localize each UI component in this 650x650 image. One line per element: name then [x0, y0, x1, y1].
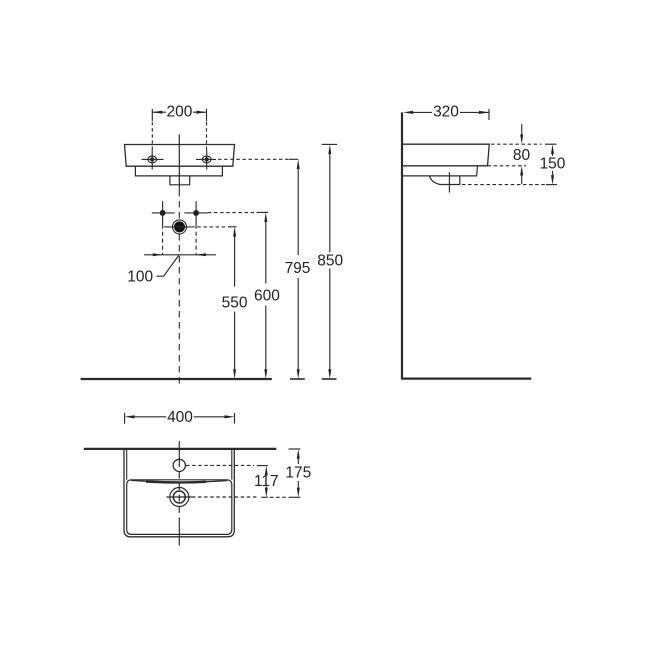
dashed ref top of basin	[491, 143, 542, 145]
wall line	[401, 112, 403, 379]
plan drain inner	[173, 491, 185, 503]
dashed reference from drain to 550	[191, 226, 228, 228]
right bolt hole	[196, 150, 216, 170]
dashed reference from dots to 600	[208, 212, 257, 214]
plan centerline	[178, 441, 180, 460]
svg-text:100: 100	[127, 269, 153, 286]
dimension line 795	[290, 159, 305, 379]
dimension 100 leader	[157, 255, 180, 276]
svg-text:175: 175	[285, 464, 311, 481]
plan faucet hole	[173, 459, 185, 471]
dimension 100 extension dashed lines	[162, 225, 164, 255]
floor line side view	[401, 378, 531, 380]
plan bowl back ledge shading	[146, 480, 206, 483]
svg-text:200: 200	[166, 104, 192, 121]
dimension 400	[125, 413, 235, 424]
plan outer basin rect	[124, 449, 234, 537]
left bolt hole	[142, 150, 164, 170]
svg-text:600: 600	[254, 288, 280, 305]
dimension 200	[152, 109, 206, 150]
front drain circle	[164, 220, 191, 234]
svg-text:320: 320	[433, 104, 459, 121]
countertop / wall edge line	[84, 448, 276, 450]
floor line under front view	[81, 378, 272, 380]
svg-text:400: 400	[167, 409, 193, 426]
svg-text:150: 150	[540, 155, 566, 172]
svg-text:550: 550	[222, 295, 248, 312]
svg-text:850: 850	[317, 252, 343, 269]
right wall anchor dot	[184, 201, 208, 225]
dimension line 550	[233, 227, 236, 379]
side basin step	[402, 166, 478, 176]
dimension 117	[265, 466, 268, 498]
front view vertical centerline	[178, 134, 180, 190]
dimension 150	[551, 144, 554, 185]
plan bowl outline	[127, 480, 232, 535]
dashed reference line from bolts to 795	[218, 158, 289, 160]
dimension 100 line with outside arrows	[144, 253, 216, 256]
dashed ref drain to 175	[192, 496, 259, 498]
side drain trap	[430, 176, 460, 184]
dimension 175	[289, 449, 301, 497]
dimension line 600	[264, 212, 267, 379]
plan drain horizontal line	[167, 496, 192, 498]
plan drain outer	[170, 488, 189, 507]
front basin drain tab	[170, 176, 190, 185]
front basin step	[135, 166, 222, 176]
dashed ref bottom of drain	[462, 184, 546, 186]
dashed ref bottom of rim	[488, 165, 527, 167]
left wall anchor dot	[152, 201, 175, 225]
svg-text:80: 80	[513, 147, 531, 164]
plan bowl back sagging edge	[131, 480, 228, 482]
side basin profile	[402, 144, 489, 166]
dimension 80	[520, 124, 523, 184]
side drain centerline	[448, 172, 450, 192]
plan inner rim line	[127, 449, 232, 480]
dashed ref faucet to 117	[186, 464, 254, 466]
dimension 320	[403, 109, 489, 120]
dimension line 850	[322, 144, 337, 379]
front basin main body outline	[125, 145, 235, 167]
svg-text:117: 117	[254, 473, 279, 490]
svg-text:795: 795	[285, 260, 311, 277]
